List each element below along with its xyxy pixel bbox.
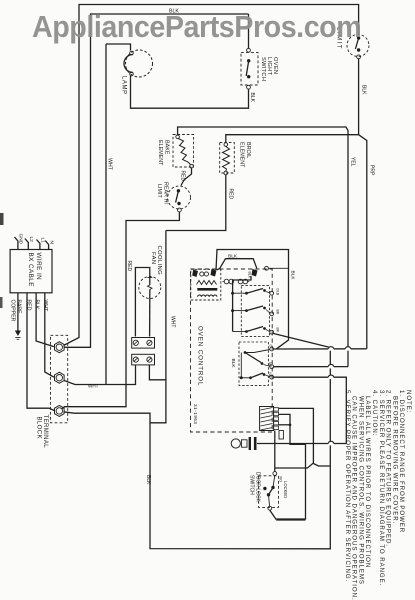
svg-text:BLOCK: BLOCK: [36, 417, 42, 439]
label BARE COPPER: [10, 300, 22, 322]
relay bank 2 dashed box: [239, 342, 268, 385]
relay K2 contact: [233, 306, 274, 316]
connector tab below P2: [279, 431, 283, 440]
line input terminal circle: [265, 266, 269, 270]
svg-text:BLK: BLK: [145, 475, 151, 485]
relay K1 contact: [233, 289, 274, 296]
label BAKE ELEMENT: [157, 140, 170, 166]
svg-text:TERMINAL: TERMINAL: [42, 415, 48, 449]
line terminal flag 3: [252, 269, 258, 277]
svg-text:WHT: WHT: [107, 158, 113, 171]
wire lamp bottom to oven light switch bottom: [131, 76, 249, 108]
wire junction to BLK loop: [313, 464, 330, 467]
svg-text:WHT: WHT: [88, 384, 99, 389]
wire T3 to BLK bottom loop: [64, 334, 331, 549]
wire transformer jumper bridge: [217, 259, 257, 270]
oven temperature sensor: [231, 437, 256, 450]
svg-text:BLK: BLK: [290, 271, 296, 281]
svg-text:BX CABLE: BX CABLE: [27, 253, 34, 287]
relay K4 common terminal: [270, 347, 274, 351]
terminal T1: [55, 342, 65, 353]
terminal T3: [55, 405, 65, 416]
svg-text:PRP: PRP: [369, 165, 375, 176]
door lock switch: [259, 472, 279, 511]
svg-text:RED: RED: [228, 189, 234, 200]
wire BLK jumper over the top: [216, 250, 289, 349]
wire fan bottom to terminal strip 1 right: [149, 297, 151, 337]
svg-text:BAKE: BAKE: [164, 140, 170, 155]
svg-text:NO: NO: [279, 477, 283, 483]
svg-text:ELEMENT: ELEMENT: [157, 140, 163, 166]
wire rear hi limit bottom to RED riser: [62, 212, 179, 409]
relay K4 contact: [241, 350, 273, 378]
wire P2 pin2 to door lock bottom loop: [279, 414, 306, 519]
wire strip2 left to WHT neutral from T2: [64, 365, 136, 385]
transformer pilot circles: [200, 272, 204, 276]
label TERMINAL BLOCK: [36, 415, 49, 449]
relay bank 1 dashed box: [241, 286, 269, 337]
relay coil bus: [233, 276, 251, 332]
wire P2 pin1 to door junction: [275, 408, 314, 468]
wire broil top feed to H2: [226, 135, 359, 143]
wire stub L1: [37, 240, 40, 250]
cooling fan: [139, 277, 161, 299]
svg-text:FAN: FAN: [150, 252, 156, 264]
transformer primary winding: [197, 281, 217, 285]
wire BLK from limit down: [358, 59, 360, 135]
labels relay1 terminals: [276, 289, 280, 333]
wire L1 BLK inner: T1 up and across to oven light switch: [64, 14, 249, 347]
wire K5 row to sensor drop: [274, 377, 347, 443]
terminal block: [51, 335, 68, 423]
terminal T2: [55, 372, 65, 383]
oven light switch: [241, 48, 258, 89]
terminal strip 2: [132, 354, 155, 365]
svg-text:LIMIT: LIMIT: [156, 184, 162, 198]
svg-text:OVEN CONTROL: OVEN CONTROL: [197, 326, 204, 386]
transformer secondary winding: [198, 295, 217, 297]
wire riser bottom jog to BLK loop: [150, 380, 166, 423]
svg-text:SWITCH: SWITCH: [260, 57, 266, 81]
bake element: [173, 135, 194, 169]
wire stub L2: [25, 239, 28, 250]
labels relay2 terminals: [268, 345, 272, 378]
label BROIL ELEMENT: [239, 142, 252, 168]
transformer dashed box: [191, 269, 221, 300]
svg-text:BLK: BLK: [230, 359, 236, 369]
junction dot pin3: [289, 424, 292, 427]
svg-text:WHT: WHT: [42, 300, 48, 313]
svg-text:COPPER: COPPER: [10, 300, 16, 322]
svg-text:WIRE IN: WIRE IN: [35, 253, 42, 281]
junction node bus2: [231, 309, 234, 312]
svg-text:N: N: [49, 241, 55, 245]
svg-text:RED: RED: [26, 300, 32, 311]
svg-text:BK: BK: [276, 328, 280, 333]
oven control dashed box: [191, 269, 273, 432]
wire strip2 right down to riser jog: [149, 365, 166, 380]
svg-text:BARE: BARE: [16, 300, 22, 315]
lamp: [124, 50, 153, 77]
wire stub GND: [15, 237, 18, 250]
label WIRE IN BX CABLE: [27, 253, 42, 287]
label REAR HI LIMIT: [156, 182, 169, 204]
wire WHT from BX to T2: [45, 293, 54, 377]
oven hi-limit switch: [347, 35, 369, 59]
transformer input terminal flag 1: [192, 270, 198, 278]
terminal strip 1: [132, 338, 155, 349]
wire RED from BX to T3: [27, 293, 54, 411]
watermark: [32, 9, 361, 45]
svg-text:GND: GND: [18, 234, 24, 245]
broil element: [220, 143, 235, 175]
svg-text:BLK: BLK: [249, 93, 255, 103]
transformer core bar: [197, 288, 217, 291]
svg-text:LOCKED: LOCKED: [283, 481, 288, 498]
wire bake bottom to rear hi limit: [181, 168, 192, 186]
transformer input terminal flag 2: [211, 269, 217, 277]
svg-text:NC: NC: [268, 373, 272, 378]
wire hop jogs at crossings: [328, 347, 351, 446]
label OVEN LIGHT SWITCH: [260, 57, 278, 81]
svg-text:31-1963: 31-1963: [193, 404, 198, 424]
wire BLK from BX to T1: [36, 293, 54, 347]
svg-text:YEL: YEL: [350, 157, 356, 167]
svg-text:REAR HI: REAR HI: [163, 182, 169, 204]
svg-text:WHT: WHT: [170, 316, 176, 327]
svg-text:BLK: BLK: [34, 300, 40, 310]
svg-text:RED: RED: [126, 261, 132, 272]
svg-text:BLK: BLK: [228, 254, 238, 260]
wire line terminal to right riser: [268, 267, 288, 269]
wire bare copper to ground: [17, 293, 19, 331]
svg-text:BR: BR: [276, 310, 280, 315]
wire P2 bottom pin to door lock top: [274, 431, 276, 472]
wire PRP row to K4 common: [274, 348, 367, 350]
relay K5 contact: [240, 373, 274, 379]
connector P2: [260, 407, 279, 431]
wire PRP drop: [359, 135, 367, 349]
wire L1 BLK top outer: T1 to oven hi-limit: [64, 5, 359, 346]
BX cable box: [10, 250, 52, 293]
wire lamp top branch to WHT bus: [106, 44, 131, 51]
wire WHT riser: [165, 231, 167, 381]
relay coil A: [223, 279, 234, 284]
wire broil bottom down and left to WHT riser: [166, 175, 226, 231]
svg-text:LAMP: LAMP: [121, 76, 127, 95]
label DOOR LOCK SWITCH: [249, 472, 261, 503]
svg-text:ELEMENT: ELEMENT: [239, 142, 245, 168]
wire sensor to K5 drop: [257, 443, 346, 445]
note text block: [344, 390, 412, 600]
edge artifact marks: [0, 213, 4, 225]
wire bake top feed YEL: [178, 127, 348, 367]
wire drop to oven light switch: [248, 14, 250, 48]
svg-text:5. VERIFY PROPER OPERATION AFT: 5. VERIFY PROPER OPERATION AFTER SERVICI…: [344, 390, 351, 582]
rear hi limit: [168, 186, 191, 212]
svg-text:L1: L1: [40, 238, 46, 244]
relay K3 contact: [233, 327, 274, 335]
relay coil B: [238, 279, 249, 284]
wire YEL row to K4 NO: [274, 366, 348, 368]
svg-text:SWITCH: SWITCH: [249, 475, 255, 495]
label COOLING FAN: [150, 246, 162, 276]
wire fan top loop to terminal strip 1 left: [135, 268, 149, 337]
ground symbol: [15, 331, 21, 340]
svg-text:L2: L2: [28, 237, 34, 243]
svg-text:NO: NO: [268, 362, 272, 367]
svg-text:BROIL: BROIL: [245, 142, 251, 158]
wire P2 pin3 stub: [279, 424, 290, 426]
svg-text:DLB: DLB: [276, 289, 280, 296]
svg-text:BLK: BLK: [361, 85, 367, 95]
wire WHT bus vertical: [105, 44, 107, 385]
wire stub N: [45, 241, 48, 250]
junction node bus1: [231, 292, 234, 295]
